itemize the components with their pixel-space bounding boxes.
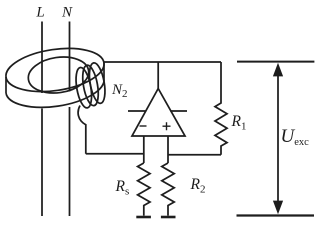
svg-text:L: L	[35, 5, 44, 21]
wire non-inverting input down to R2	[167, 136, 169, 163]
toroidal core bottom contour	[6, 79, 104, 108]
svg-text:N2: N2	[111, 82, 128, 100]
svg-text:R1: R1	[231, 113, 247, 133]
Uexc top reference line	[237, 61, 314, 63]
Uexc arrowhead up	[273, 63, 283, 77]
op-amp U1 triangle	[132, 89, 185, 137]
toroidal core left side wall	[5, 77, 7, 93]
op-amp right power stub	[170, 110, 187, 112]
wire L (line conductor through core)	[41, 22, 43, 217]
svg-text:Uexc: Uexc	[281, 126, 310, 148]
wire winding lower lead	[78, 106, 86, 154]
wire lower-left horizontal to inverting input	[86, 153, 144, 155]
Uexc bottom reference line	[237, 214, 315, 216]
winding N2 loop 2	[80, 64, 101, 107]
svg-text:R2: R2	[190, 176, 206, 196]
Uexc arrow shaft	[277, 75, 279, 201]
resistor Rs	[138, 163, 150, 216]
op-amp plus sign	[163, 122, 171, 130]
svg-text:N: N	[61, 5, 73, 21]
wire non-inverting node to R1 bottom	[168, 154, 221, 156]
wire N (neutral conductor through core)	[69, 22, 71, 217]
winding N2 loop 1	[73, 66, 94, 109]
wire inverting input down to Rs	[143, 136, 145, 163]
ground for Rs	[136, 216, 151, 219]
winding N2 loop 3	[87, 62, 108, 105]
resistor R1	[215, 62, 227, 155]
toroidal core inner hole ellipse	[26, 53, 91, 97]
op-amp minus sign	[140, 125, 147, 127]
Uexc arrowhead down	[273, 201, 283, 215]
resistor R2	[162, 163, 174, 216]
toroidal core outer ellipse	[3, 42, 107, 97]
wire op-amp output up to top wire	[157, 62, 159, 89]
ground for R2	[161, 216, 176, 219]
toroidal core right side wall	[103, 63, 105, 79]
svg-text:Rs: Rs	[115, 178, 130, 198]
op-amp left power stub	[128, 110, 146, 112]
wire winding top lead to op-amp and R1	[104, 61, 221, 63]
